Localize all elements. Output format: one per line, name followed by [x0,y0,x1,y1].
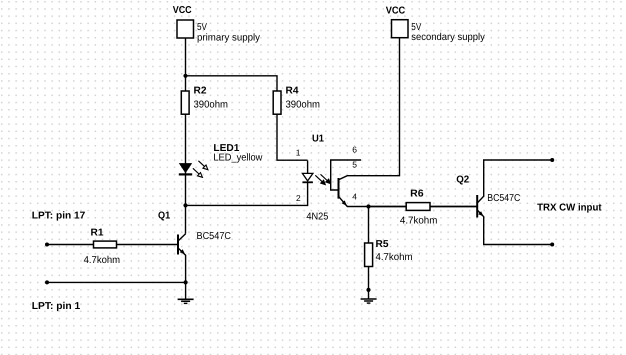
svg-text:LPT: pin 17: LPT: pin 17 [32,211,86,222]
svg-text:R2: R2 [194,86,207,97]
svg-text:4.7kohm: 4.7kohm [84,255,121,266]
svg-text:VCC: VCC [386,6,406,17]
svg-text:R6: R6 [410,188,424,199]
svg-text:4.7kohm: 4.7kohm [400,216,438,227]
svg-text:4: 4 [352,192,357,202]
svg-text:4N25: 4N25 [306,212,328,223]
svg-text:5V: 5V [411,22,421,33]
svg-text:390ohm: 390ohm [286,100,321,111]
svg-text:TRX CW input: TRX CW input [537,202,602,213]
svg-text:Q2: Q2 [456,174,469,185]
svg-text:secondary supply: secondary supply [411,32,485,43]
svg-text:1: 1 [296,147,301,157]
svg-text:LPT: pin 1: LPT: pin 1 [32,301,81,312]
svg-text:R1: R1 [91,228,104,239]
svg-text:4.7kohm: 4.7kohm [376,252,413,263]
svg-text:BC547C: BC547C [487,193,520,204]
svg-text:LED_yellow: LED_yellow [213,153,263,164]
svg-text:5: 5 [352,159,357,169]
svg-text:6: 6 [352,144,357,154]
svg-text:390ohm: 390ohm [194,100,229,111]
svg-text:R4: R4 [286,86,299,97]
svg-text:R5: R5 [376,239,389,250]
svg-text:2: 2 [296,193,301,203]
svg-text:Q1: Q1 [158,211,171,222]
svg-text:VCC: VCC [173,5,192,16]
svg-text:primary supply: primary supply [197,32,260,43]
svg-text:BC547C: BC547C [197,231,232,242]
svg-text:U1: U1 [312,134,324,145]
